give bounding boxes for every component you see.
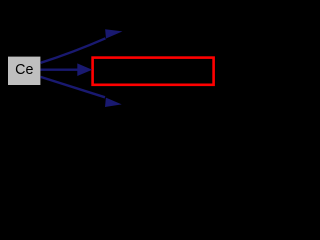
edge Ce to bottom node <box>41 77 122 107</box>
arrowhead <box>77 63 92 76</box>
wire <box>41 38 106 63</box>
arrowhead <box>105 98 122 107</box>
edge Ce to top node <box>41 29 123 63</box>
svg-text:Ce: Ce <box>15 62 33 78</box>
edge Ce to current node <box>41 63 93 76</box>
node Ce <box>8 57 40 85</box>
arrowhead <box>105 29 122 38</box>
wire <box>41 77 105 97</box>
wire <box>41 68 79 70</box>
node current (red border, label hidden) <box>93 58 214 85</box>
